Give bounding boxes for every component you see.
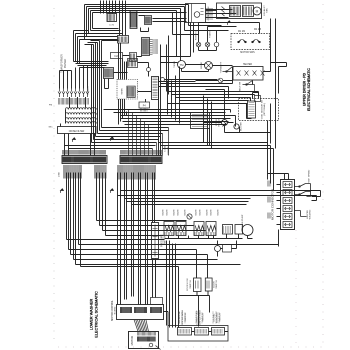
valve box plain 2 — [235, 225, 243, 235]
wire drops from top into box B — [101, 1, 126, 36]
fold line bottom — [58, 346, 322, 348]
svg-text:VALVE: VALVE — [162, 209, 165, 216]
svg-text:MOTOR CONTROL: MOTOR CONTROL — [112, 300, 114, 321]
svg-text:TIMER: TIMER — [122, 88, 124, 95]
svg-text:LOWER PUMP: LOWER PUMP — [197, 310, 199, 325]
coin sensor sw box — [248, 101, 256, 118]
svg-text:DISPLAY HEAT: DISPLAY HEAT — [199, 310, 202, 325]
svg-text:FAN: FAN — [265, 8, 268, 13]
svg-text:UPPER DRYER - PD: UPPER DRYER - PD — [303, 72, 307, 106]
bottom label tick columns — [179, 312, 219, 324]
svg-text:VALVE: VALVE — [217, 209, 220, 216]
timer motor circle — [178, 61, 186, 69]
svg-text:TURBIDITY: TURBIDITY — [221, 61, 223, 73]
svg-text:VALVE: VALVE — [166, 209, 169, 216]
fold line inner right — [295, 230, 297, 344]
wire top-left loop corners — [85, 5, 93, 40]
water valve circle — [187, 214, 192, 219]
wire drops to coin area — [253, 81, 259, 99]
band right drops into block2 — [129, 110, 169, 156]
svg-text:L1 N: L1 N — [109, 25, 114, 27]
svg-text:BUZZER: BUZZER — [241, 122, 243, 131]
feeds into connector top — [268, 174, 289, 247]
drum lamp circle — [205, 62, 213, 70]
box b4 — [128, 59, 138, 68]
coin wires — [217, 104, 252, 119]
motor control box — [117, 305, 164, 320]
wires below filter box — [61, 124, 95, 156]
svg-text:PRESSURE: PRESSURE — [162, 234, 164, 247]
motor connector left stubs — [277, 185, 281, 225]
connector plug box P1 — [107, 14, 117, 22]
svg-text:M4 M5: M4 M5 — [254, 29, 262, 31]
small box above motor control — [151, 298, 163, 305]
svg-text:AVAILABLE: AVAILABLE — [216, 311, 219, 323]
wires K1-D-T1 — [139, 13, 187, 32]
fold line right — [322, 4, 324, 345]
band y127-148 — [65, 128, 169, 149]
svg-text:MOTOR CONNECTOR: MOTOR CONNECTOR — [271, 188, 275, 220]
svg-text:M1 M2: M1 M2 — [238, 31, 246, 33]
svg-text:VALVE: VALVE — [199, 209, 202, 216]
thermal fuse blade — [223, 67, 234, 72]
box b2 — [130, 53, 137, 62]
connector block2 — [120, 156, 162, 164]
component box D — [145, 16, 152, 25]
svg-text:BELT SW: BELT SW — [240, 82, 242, 91]
svg-text:PRI: PRI — [49, 105, 53, 107]
svg-text:VALVE: VALVE — [173, 209, 176, 216]
timer box T1 — [186, 4, 206, 23]
fold line left — [53, 8, 55, 345]
svg-text:M: M — [256, 10, 259, 14]
block b5 dark — [104, 68, 114, 79]
pressure switch wires down — [153, 259, 156, 298]
center-right verticals — [159, 36, 169, 156]
svg-text:SWITCH: SWITCH — [220, 313, 222, 322]
small circle b — [147, 68, 151, 72]
svg-text:ELECTRICAL SCHEMATIC: ELECTRICAL SCHEMATIC — [307, 68, 311, 111]
relay block K1 — [130, 11, 137, 29]
timer motor circle inside T1 — [194, 12, 200, 18]
svg-text:SWITCH: SWITCH — [185, 313, 187, 322]
small circle left — [161, 78, 165, 82]
broken belt switch — [243, 81, 255, 93]
svg-text:TIMER: TIMER — [174, 61, 176, 68]
pressure switch box — [152, 223, 159, 259]
svg-text:SWITCH: SWITCH — [190, 280, 192, 289]
wire drops from bus to T1 — [173, 5, 222, 61]
motor connector pin — [283, 198, 292, 204]
harness fan — [134, 320, 149, 332]
box b1 — [111, 53, 123, 59]
lamp wires — [199, 23, 237, 51]
valve coil box — [164, 222, 174, 236]
svg-text:PUSH TO: PUSH TO — [196, 31, 198, 41]
labels below connectors — [64, 165, 82, 179]
bundle A L-runs — [67, 173, 279, 267]
motor connector pin — [283, 222, 292, 228]
relay contacts right — [295, 184, 311, 217]
circle fuse top — [218, 78, 223, 83]
svg-text:SEC: SEC — [48, 127, 53, 129]
indicator lamps — [196, 42, 201, 47]
drops to pin row — [60, 66, 88, 89]
band y108-124 — [104, 110, 236, 127]
bottom board box — [212, 328, 225, 336]
box P4 — [139, 102, 150, 108]
wires T1 to right — [191, 10, 237, 57]
left loop verticals — [74, 31, 80, 64]
connector J3 tall — [152, 77, 159, 100]
svg-text:POWER: POWER — [168, 146, 170, 155]
valve bottom wire row — [165, 234, 253, 239]
long horizontals center — [168, 92, 259, 119]
thermostat assembly box — [217, 3, 262, 19]
motor box — [129, 332, 159, 349]
valve coil box — [206, 222, 216, 236]
b3 pin ticks — [150, 40, 153, 55]
svg-text:VALVE: VALVE — [210, 209, 213, 216]
bottom board box — [178, 328, 192, 336]
valve coil box — [176, 222, 186, 236]
motor connector pin — [283, 214, 292, 220]
pin row chevrons — [58, 89, 89, 98]
wires door/buzzer — [204, 123, 271, 133]
svg-text:MOTOR SWS: MOTOR SWS — [240, 52, 255, 54]
svg-text:TM: TM — [180, 63, 184, 67]
connector block1 — [62, 156, 107, 164]
wires heater right corner — [264, 50, 287, 94]
cross horizontals washer — [118, 191, 321, 205]
valve box plain 1 — [223, 225, 233, 235]
drain pump circle — [242, 225, 253, 236]
transformer windings — [66, 108, 97, 124]
bundle A2 runs to valves — [97, 173, 206, 236]
svg-text:SWITCH: SWITCH — [164, 236, 166, 245]
svg-text:HIGH SPEED: HIGH SPEED — [309, 169, 311, 183]
svg-text:VALVE: VALVE — [195, 209, 198, 216]
svg-text:PRI/SEC: PRI/SEC — [64, 58, 67, 68]
cluster verticals — [119, 43, 127, 125]
svg-text:DISPLAY AREA: DISPLAY AREA — [181, 310, 184, 325]
center vertical bus — [92, 41, 102, 143]
centrifugal switch 1 — [239, 40, 245, 43]
svg-text:DRUM: DRUM — [201, 62, 203, 69]
svg-text:VALVE: VALVE — [184, 209, 187, 216]
wire drop from top to plug — [107, 1, 116, 14]
motor connector pin — [283, 206, 292, 212]
svg-text:(OPTIONAL): (OPTIONAL) — [263, 103, 266, 116]
svg-text:WINDING: WINDING — [310, 209, 312, 219]
door switch box — [205, 278, 212, 291]
motor sws dashed box — [231, 34, 270, 50]
small box above coin — [255, 96, 261, 102]
left loop horizontals — [74, 31, 89, 40]
wire top supply bus — [85, 5, 189, 13]
bottom board box — [195, 328, 209, 336]
timer dotted box — [117, 80, 138, 100]
svg-text:VALVE: VALVE — [206, 209, 209, 216]
motor connector block — [281, 180, 295, 230]
bundle B long verticals — [118, 173, 155, 305]
svg-text:VALVE: VALVE — [177, 209, 180, 216]
turbidity circle — [215, 246, 221, 252]
motor connector pin — [283, 190, 292, 196]
door switch circle — [222, 120, 228, 126]
wire bus into timer blocks — [85, 29, 123, 40]
svg-text:POWER: POWER — [88, 86, 90, 95]
turbidity box — [223, 245, 232, 253]
bus top corners — [85, 41, 119, 45]
svg-text:SWITCH: SWITCH — [216, 280, 218, 289]
svg-text:START: START — [209, 30, 212, 37]
noise filter box — [58, 127, 97, 134]
buzzer circle — [234, 124, 239, 129]
svg-text:DRAIN PUMP: DRAIN PUMP — [241, 214, 244, 228]
wires motors row — [161, 57, 233, 72]
svg-text:ELECTRICAL SCHEMATIC: ELECTRICAL SCHEMATIC — [95, 291, 99, 338]
exhaust fan motor circle — [253, 7, 261, 15]
svg-text:LOAD: LOAD — [164, 145, 167, 151]
heater box — [233, 67, 263, 81]
flag below assembly — [228, 21, 231, 25]
timer inner dark block — [127, 86, 135, 97]
cluster wires joins — [105, 56, 152, 103]
wires motor sws — [233, 19, 276, 67]
console left box — [191, 113, 210, 129]
wire assembly left lead — [206, 10, 217, 12]
bundle into transformer area — [74, 62, 109, 68]
motor connector pin — [283, 182, 292, 188]
bundle to bottom boxes — [167, 241, 176, 328]
svg-text:SWITCH: SWITCH — [203, 313, 205, 322]
right corner wires down to connector — [159, 96, 274, 191]
svg-text:NOISE FILTER: NOISE FILTER — [69, 131, 85, 133]
coin operator dashed box — [239, 99, 279, 121]
hatched box B — [118, 36, 129, 44]
svg-text:COOL DOWN: COOL DOWN — [208, 6, 210, 20]
wires between bottom boxes — [164, 312, 229, 332]
pin labels above connectors — [63, 150, 106, 155]
door switch feeds — [179, 250, 210, 328]
centrifugal switch 2 — [253, 40, 259, 43]
svg-text:DIGITAL: DIGITAL — [213, 313, 216, 322]
block b3 tall dark — [142, 38, 150, 56]
svg-text:HEATER: HEATER — [243, 63, 252, 66]
motor box tail — [156, 346, 161, 350]
long right verticals — [268, 67, 276, 149]
corner drops left of long runs — [168, 67, 180, 124]
svg-text:UPPER TUB: UPPER TUB — [179, 311, 181, 323]
valve coil box — [194, 222, 204, 236]
svg-text:LOWER WASHER: LOWER WASHER — [90, 298, 94, 330]
bottom outer box — [168, 326, 228, 342]
door lock switch box — [194, 278, 202, 292]
svg-text:DOOR LOCK: DOOR LOCK — [187, 278, 189, 291]
svg-text:MOTOR: MOTOR — [130, 336, 134, 346]
svg-text:LINE: LINE — [59, 172, 61, 177]
horizontal band y78-86 — [159, 80, 233, 99]
